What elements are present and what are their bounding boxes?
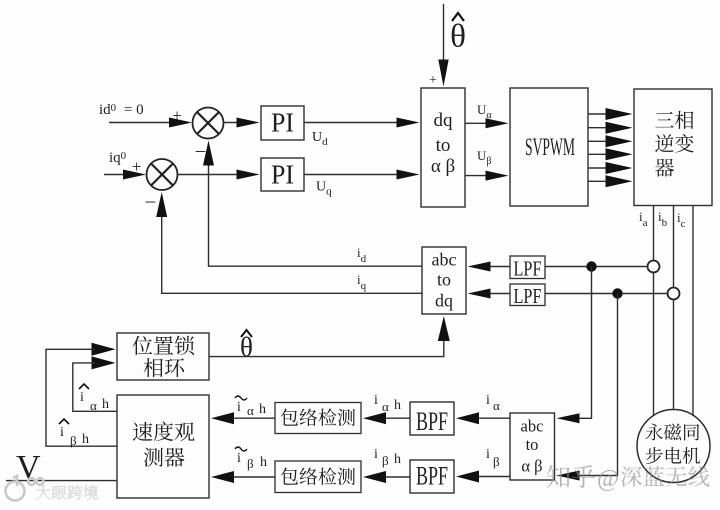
wire env2 to observer — [234, 476, 275, 478]
wire gate signal 5 — [588, 167, 610, 169]
wire gate signal 2 — [588, 127, 610, 129]
block dq-to-alphabeta — [421, 88, 465, 207]
label yongcitong — [646, 424, 700, 441]
svg-text:α: α — [90, 398, 97, 413]
wire abc-ab to BPF2 — [479, 476, 510, 478]
wire id feedback — [209, 162, 423, 266]
block SVPWM — [510, 88, 588, 206]
wire fb2 horiz — [73, 362, 95, 364]
arrowhead iq into S2 — [156, 192, 167, 217]
block abc-to-dq — [422, 247, 466, 314]
svg-text:abc: abc — [432, 250, 457, 270]
arrowhead fb2 into PLL — [92, 356, 116, 369]
arrowhead Ualpha into SVPWM — [486, 118, 509, 128]
wire J1 drop to abc-ab — [578, 267, 592, 419]
svg-text:θ: θ — [450, 19, 466, 55]
wire PI1 to dq-ab block — [304, 122, 400, 124]
arrowhead gate signal 4 — [606, 148, 633, 160]
arrowhead J1 into abc-ab — [557, 413, 580, 423]
svg-text:BPF: BPF — [416, 462, 448, 491]
wire iq0 reference — [104, 174, 126, 176]
svg-text:PI: PI — [271, 160, 294, 190]
arrowhead into dq-ab upper — [397, 118, 420, 128]
arrowhead gate signal 3 — [606, 135, 633, 147]
block envelope-detect 1 bao-luo-jian-ce — [275, 403, 361, 434]
svg-text:LPF: LPF — [514, 257, 542, 281]
wire iq feedback — [162, 214, 422, 293]
arrowhead gate signal 2 — [606, 122, 633, 134]
wire S1 to PI1 — [224, 122, 241, 124]
svg-text:i: i — [374, 447, 378, 462]
svg-text:i: i — [237, 451, 241, 466]
wire Ualpha — [465, 122, 490, 124]
block PI2 — [261, 158, 304, 191]
wire BPF1 to env1 — [386, 417, 410, 419]
svg-text:α: α — [247, 403, 254, 418]
arrowhead into summing junction S2 — [123, 170, 146, 180]
junction dot J2 — [612, 288, 622, 298]
svg-text:id0 = 0: id0 = 0 — [99, 102, 144, 118]
svg-text:i: i — [237, 400, 241, 415]
arrowhead id into S1 — [203, 141, 214, 166]
label qi — [655, 159, 674, 177]
block PLL wei-zhi-suo-xiang-huan — [117, 333, 209, 380]
svg-text:dq: dq — [434, 110, 454, 131]
arrowhead into abc-dq upper — [468, 262, 491, 272]
label ni-bian — [655, 134, 694, 153]
block envelope-detect 2 — [275, 461, 361, 493]
svg-text:SVPWM: SVPWM — [525, 134, 575, 161]
watermark left text da-yan-kua-jing — [36, 485, 98, 500]
arrowhead into env1 — [363, 412, 386, 424]
arrowhead J2 into abc-ab — [557, 471, 580, 481]
label budianji — [646, 447, 700, 464]
block speed observer su-du-guan-ce-qi — [117, 395, 209, 498]
svg-text:dq: dq — [435, 291, 453, 311]
svg-text:α: α — [493, 398, 500, 413]
svg-text:β: β — [70, 433, 77, 448]
arrowhead into BPF2 — [456, 471, 479, 483]
arrowhead row1 into observer — [211, 412, 234, 424]
svg-text:i: i — [486, 393, 490, 408]
svg-text:i: i — [60, 425, 64, 440]
wire LPF2 tap — [545, 293, 668, 295]
svg-text:i: i — [80, 390, 84, 405]
svg-text:i: i — [486, 447, 490, 462]
wire theta-hat PLL output — [209, 338, 444, 357]
summing junction S2 — [147, 159, 178, 190]
svg-text:+: + — [429, 73, 437, 88]
svg-text:h: h — [260, 455, 267, 470]
block BPF2 — [410, 460, 454, 493]
wire theta-hat input — [443, 4, 445, 64]
arrowhead theta-hat into dq-ab top — [438, 60, 448, 87]
svg-text:α β: α β — [431, 156, 455, 177]
arrowhead theta-hat into abc-dq bottom — [438, 316, 450, 341]
wire fb2 loop — [73, 362, 117, 411]
wire phase c — [692, 206, 694, 417]
wire phase b — [673, 206, 675, 410]
svg-text:α: α — [382, 399, 389, 414]
svg-text:h: h — [394, 398, 401, 413]
svg-text:to: to — [526, 435, 539, 454]
arrowhead into dq-ab lower — [397, 170, 420, 180]
svg-text:h: h — [102, 397, 109, 412]
block three-phase inverter — [634, 89, 712, 206]
arrowhead into summing junction S1 — [169, 118, 192, 128]
label suduguan — [133, 422, 195, 442]
arrowhead into abc-dq lower — [468, 289, 491, 299]
wire LPF1 tap — [545, 266, 648, 268]
summing junction S1 — [193, 108, 224, 139]
block BPF1 — [410, 402, 454, 435]
svg-text:+: + — [172, 106, 182, 125]
wire gate signal 4 — [588, 153, 610, 155]
arrowhead gate signal 1 — [606, 108, 633, 120]
wire V input — [6, 480, 117, 482]
node tap on phase b (open circle) — [668, 288, 680, 300]
svg-text:i: i — [374, 393, 378, 408]
label ceqi — [144, 448, 185, 467]
block LPF1 — [510, 256, 545, 279]
svg-text:α β: α β — [521, 457, 542, 476]
wire env1 to observer — [234, 417, 275, 419]
svg-text:–: – — [195, 140, 206, 161]
wire fb1 loop — [46, 349, 117, 447]
svg-text:β: β — [382, 453, 389, 468]
svg-text:h: h — [259, 402, 266, 417]
svg-text:h: h — [394, 452, 401, 467]
arrowhead row2 into observer — [211, 471, 234, 483]
wire phase a — [653, 206, 655, 417]
arrowhead Ubeta into SVPWM — [486, 171, 509, 181]
svg-text:+: + — [132, 157, 142, 176]
junction dot J1 — [586, 261, 596, 271]
block PMSM motor circle — [637, 410, 710, 483]
label xianghuan — [144, 358, 184, 377]
svg-text:h: h — [82, 432, 89, 447]
wire S2 to PI2 — [178, 174, 241, 176]
arrowhead into PI1 — [237, 118, 260, 128]
watermark right zhihu — [547, 465, 595, 488]
wire id0 reference — [109, 122, 172, 124]
block LPF2 — [510, 284, 545, 306]
arrowhead into BPF1 — [456, 412, 479, 424]
label baoluojiance 1 — [281, 408, 355, 426]
svg-text:β: β — [247, 456, 254, 471]
wire LPF1 to abc-dq — [489, 266, 510, 268]
svg-text:to: to — [437, 270, 451, 290]
wire abc-ab to BPF1 — [479, 417, 510, 419]
arrowhead gate signal 6 — [606, 175, 633, 187]
label baoluojiance 2 — [281, 467, 355, 485]
label san-xiang — [655, 111, 693, 129]
svg-text:LPF: LPF — [514, 284, 542, 308]
wire PI2 to dq-ab block — [304, 174, 400, 176]
watermark left logo — [6, 476, 44, 501]
block abc-to-alphabeta — [510, 413, 555, 480]
wire gate signal 1 — [588, 113, 610, 115]
wire J2 drop to abc-ab — [578, 294, 618, 476]
svg-text:abc: abc — [521, 417, 544, 436]
wire BPF2 to env2 — [386, 476, 410, 478]
wire LPF2 to abc-dq — [489, 293, 510, 295]
svg-text:β: β — [493, 454, 500, 469]
wire gate signal 6 — [588, 180, 610, 182]
svg-text:BPF: BPF — [416, 407, 448, 436]
svg-text:PI: PI — [271, 108, 294, 138]
node tap on phase a (open circle) — [648, 261, 660, 273]
arrowhead gate signal 5 — [606, 162, 633, 174]
wire fb1 horiz — [46, 348, 95, 350]
block PI1 — [261, 106, 304, 140]
label weizhisuo — [133, 336, 195, 356]
svg-text:@: @ — [597, 466, 619, 492]
wire Ubeta — [465, 175, 490, 177]
arrowhead into PI2 — [237, 170, 260, 180]
arrowhead into env2 — [363, 471, 386, 483]
svg-text:to: to — [436, 135, 451, 156]
svg-text:–: – — [145, 191, 156, 212]
arrowhead fb1 into PLL — [92, 343, 116, 356]
wire gate signal 3 — [588, 140, 610, 142]
